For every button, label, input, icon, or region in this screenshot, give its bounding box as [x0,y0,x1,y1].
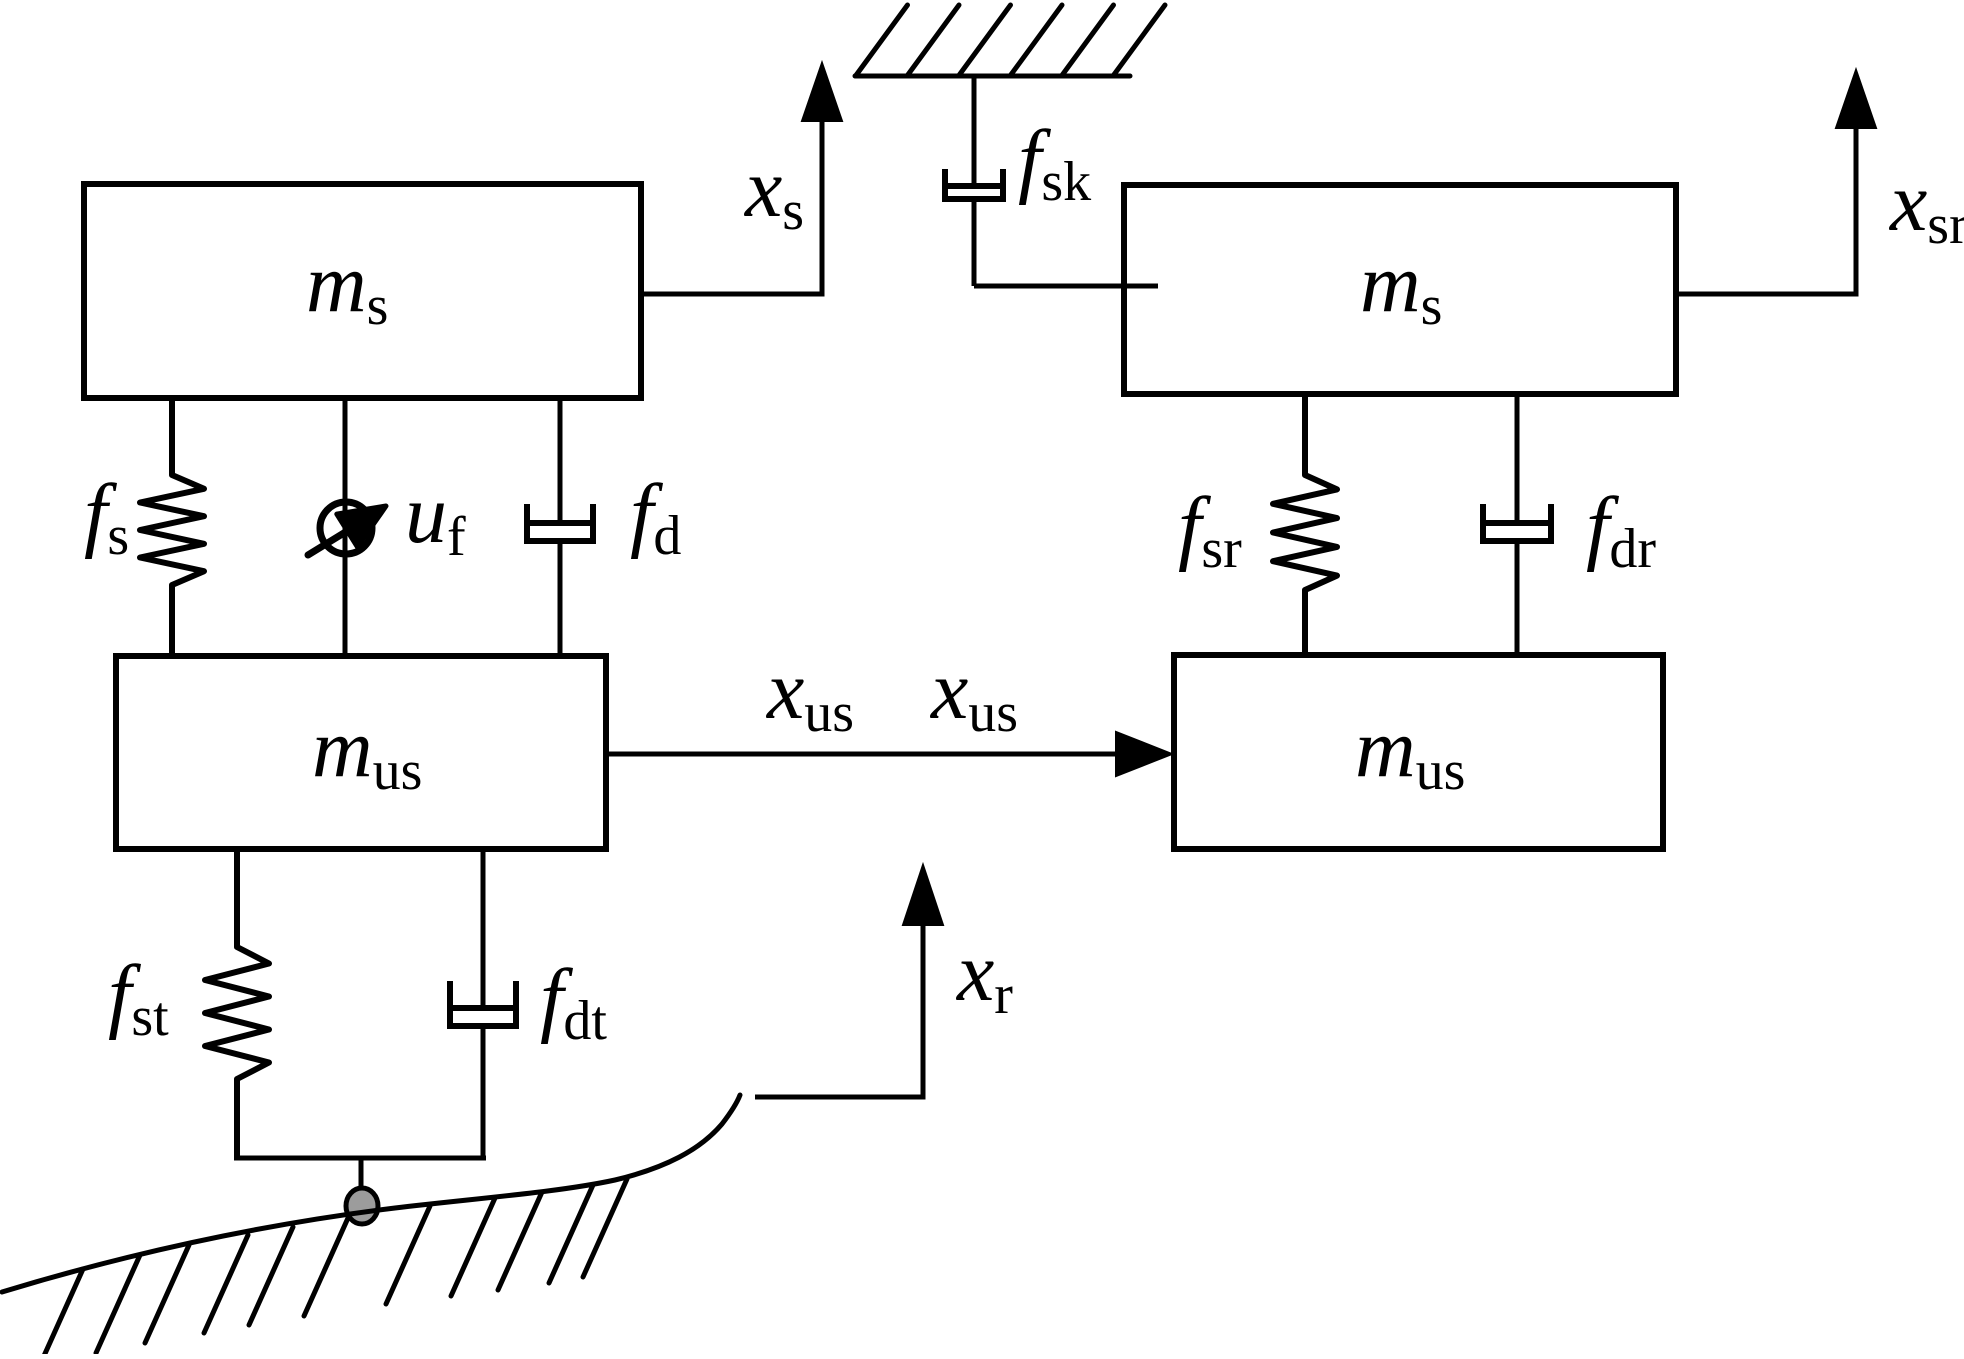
spring f_sr [1273,394,1337,655]
arrowhead x_us [1116,732,1172,776]
damper f_sk [945,172,1003,199]
actuator u_f [320,502,372,554]
wire [972,199,977,286]
skyhook ceiling ground [855,5,1165,76]
damper f_dt [450,984,516,1026]
wire tyre bottom bar [234,1156,486,1161]
wire [1515,541,1520,655]
mass block m_s (left sprung mass) [84,184,641,398]
wire x_us arrow [606,752,1120,757]
wire x_sr connector [1676,120,1856,294]
wire x_r connector [755,925,923,1097]
road surface curve [2,1095,740,1292]
arrowhead x_r [903,865,943,925]
spring f_st [205,849,269,1158]
road hatching [39,1179,627,1359]
wire [972,76,977,186]
damper f_dr [1483,507,1551,541]
arrowhead x_s [802,63,842,121]
wire contact stub [359,1158,364,1192]
wire x_s connector [641,112,822,294]
mass block m_s (right sprung mass) [1124,185,1676,394]
arrowhead x_sr [1836,70,1876,128]
wire [481,849,486,1008]
wire [343,398,348,656]
mass block m_us (left unsprung mass) [116,656,606,849]
wire f_sk to m_s [974,284,1158,289]
wire [558,398,563,523]
spring f_s [140,398,204,656]
wire [481,1026,486,1158]
wire [558,541,563,656]
contact point [346,1188,378,1224]
damper f_d [527,507,593,541]
wire [1515,394,1520,523]
mass block m_us (right unsprung mass) [1174,655,1663,849]
